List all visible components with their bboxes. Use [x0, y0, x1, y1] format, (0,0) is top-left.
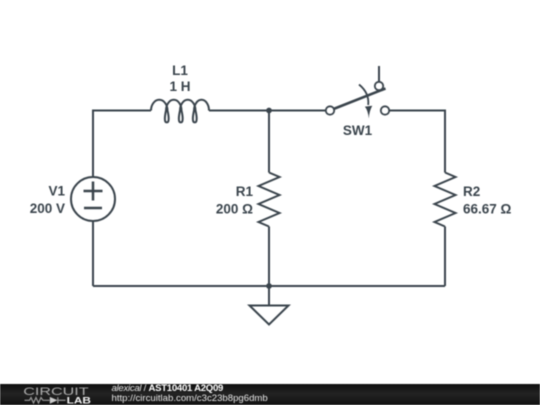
- V1 minus sign: [84, 207, 102, 210]
- svg-text:200 V: 200 V: [30, 201, 65, 216]
- switch SW1 top stub wire: [378, 66, 380, 82]
- wire V1 bottom lead: [92, 221, 94, 287]
- voltage source V1 circle: [71, 177, 115, 221]
- svg-text:LAB: LAB: [67, 395, 91, 405]
- switch SW1 pole circle: [326, 106, 334, 114]
- switch SW1 blade: [334, 89, 386, 110]
- resistor R2: [435, 173, 456, 227]
- wire R2 bottom lead: [444, 227, 446, 287]
- footer bar: [0, 384, 540, 405]
- node junction dot bottom: [266, 283, 272, 289]
- wire from L1 to switch pole: [209, 110, 326, 112]
- svg-text:L1: L1: [172, 63, 188, 78]
- switch SW1 arrowhead: [365, 106, 372, 119]
- svg-text:1 H: 1 H: [169, 79, 190, 94]
- credit text: [112, 384, 268, 404]
- svg-text:SW1: SW1: [343, 123, 373, 138]
- resistor R1: [259, 173, 280, 227]
- wire top-left horizontal from V1 branch to L1: [93, 111, 151, 178]
- switch SW1 right throw circle: [381, 106, 389, 114]
- switch SW1 upper throw circle: [375, 82, 383, 90]
- svg-text:R2: R2: [463, 184, 480, 199]
- wire R1 top lead: [268, 111, 270, 173]
- ground stub wire: [268, 286, 270, 306]
- svg-text:200 Ω: 200 Ω: [216, 201, 253, 216]
- wire from switch throw to R2 branch: [389, 111, 445, 173]
- ground symbol triangle: [250, 306, 289, 325]
- V1 plus sign: [84, 182, 103, 201]
- switch SW1 motion arc: [359, 85, 368, 106]
- logo resistor-diode art: [25, 397, 66, 403]
- wire R1 bottom lead: [268, 227, 270, 287]
- CircuitLab logo: [0, 384, 110, 405]
- inductor L1: [151, 100, 209, 123]
- node junction dot top: [266, 108, 272, 114]
- wire bottom rail: [93, 285, 445, 287]
- svg-text:66.67 Ω: 66.67 Ω: [463, 201, 512, 216]
- svg-text:V1: V1: [48, 184, 65, 199]
- svg-text:R1: R1: [236, 184, 254, 199]
